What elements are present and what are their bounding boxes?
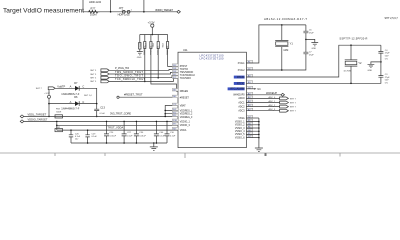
svg-text:C13: C13 <box>100 105 105 109</box>
wire second header drop <box>143 0 145 12</box>
terminal diamond VDDL_TARGET <box>20 115 24 118</box>
capacitor C24 <box>104 121 109 143</box>
svg-text:GND: GND <box>368 70 373 72</box>
svg-text:27pF: 27pF <box>309 55 314 57</box>
no-connect circle on reset <box>117 96 119 98</box>
capacitor C30 <box>134 121 139 143</box>
wire header pin2 drop <box>110 0 112 12</box>
svg-text:TMS/SWDIO: TMS/SWDIO <box>180 72 194 74</box>
wire VSSA to gnd bus <box>246 117 259 119</box>
ground (cap bank) <box>150 143 158 150</box>
svg-text:27pF: 27pF <box>385 77 390 79</box>
wire ADC1 <box>246 102 279 104</box>
wire RTCX1 to crystal <box>246 45 381 77</box>
svg-text:ADC_0: ADC_0 <box>269 96 277 99</box>
svg-text:SSPT7F-12.5PF20-R: SSPT7F-12.5PF20-R <box>339 37 367 41</box>
ground (VSSIO) <box>255 138 263 152</box>
wire VDDIO_3 rail <box>57 124 178 126</box>
svg-text:TRGT_VDDA: TRGT_VDDA <box>108 125 124 129</box>
wire cap bank ground rail <box>71 142 167 144</box>
svg-text:SHT 2,5,6,7: SHT 2,5,6,7 <box>385 17 399 20</box>
svg-text:32.768k: 32.768k <box>344 71 352 73</box>
svg-text:TCK/SWDCLK: TCK/SWDCLK <box>180 75 196 77</box>
terminal diamond WAKEUP <box>281 93 285 96</box>
svg-text:VSSIO_5: VSSIO_5 <box>235 134 245 136</box>
svg-text:12M: 12M <box>283 48 288 52</box>
svg-text:LPC4337JET100: LPC4337JET100 <box>200 57 225 61</box>
svg-text:XTAL2: XTAL2 <box>238 69 246 72</box>
svg-text:C: C <box>82 100 84 104</box>
svg-text:GND: GND <box>137 57 142 59</box>
wire from header pin1 down and right (top shunt circuit) <box>83 0 177 12</box>
power +3.3V (diode clamp) <box>48 90 50 96</box>
node junction at JP7 output <box>143 11 145 13</box>
capacitor C28 <box>85 130 89 143</box>
wire TDO <box>109 75 178 77</box>
wire VBAT/VDDREG bus <box>165 106 178 117</box>
wire R73 to TCK wire <box>144 35 146 82</box>
svg-text:VSSA: VSSA <box>238 117 245 120</box>
wire 3.3V stem <box>151 27 153 34</box>
svg-text:#RESET: #RESET <box>180 98 190 100</box>
svg-text:100m: 100m <box>90 13 97 17</box>
svg-text:VDDIO_TARGET: VDDIO_TARGET <box>28 118 48 122</box>
svg-text:VDDREG_3: VDDREG_3 <box>180 117 193 119</box>
svg-text:TDO_SWO_TRGT: TDO_SWO_TRGT <box>115 74 143 78</box>
wire TCK <box>109 78 178 81</box>
svg-text:VSSIO_4: VSSIO_4 <box>235 131 245 133</box>
svg-text:5%: 5% <box>385 82 388 84</box>
terminal diamond VDDIO_TARGET (lower) <box>20 120 24 123</box>
svg-text:0.1uF: 0.1uF <box>170 135 176 137</box>
svg-text:ADC_2: ADC_2 <box>269 104 277 107</box>
svg-text:SHT 5: SHT 5 <box>90 81 97 83</box>
terminal diamond VDDIO_TARGET <box>177 10 181 13</box>
wire ADC0 <box>246 97 279 99</box>
svg-text:WAKEUP0: WAKEUP0 <box>233 94 245 97</box>
node rtc gnd tap <box>380 61 382 63</box>
svg-text:+3.3V: +3.3V <box>44 93 50 95</box>
svg-text:Y2: Y2 <box>358 61 362 65</box>
svg-text:1N4448WS-7-F: 1N4448WS-7-F <box>61 106 79 110</box>
svg-text:A: A <box>70 85 72 89</box>
svg-text:0.1uF: 0.1uF <box>100 113 106 115</box>
svg-text:C: C <box>82 85 84 89</box>
svg-text:Y1: Y1 <box>290 41 294 45</box>
svg-text:ADC1: ADC1 <box>238 101 245 104</box>
ground GND (pull-down) <box>137 52 143 55</box>
port ADC2 <box>280 105 289 108</box>
svg-text:VddTP: VddTP <box>57 85 65 89</box>
svg-text:VSSIO_6: VSSIO_6 <box>235 137 245 139</box>
wire TMS <box>109 72 178 74</box>
svg-text:0.01uF: 0.01uF <box>110 135 117 137</box>
wire core rail 3V3_TRGT_CORE <box>24 115 178 117</box>
svg-text:VDDREG_2: VDDREG_2 <box>180 114 193 116</box>
wires VSSIO pins <box>246 122 259 138</box>
svg-text:HDR-1x02: HDR-1x02 <box>89 0 102 4</box>
capacitor C40 <box>154 121 159 143</box>
node rtc rail <box>350 44 352 46</box>
capacitor C26 <box>69 130 73 143</box>
wire RTCX2 <box>246 77 381 83</box>
wire pull-up rail <box>140 34 168 36</box>
svg-text:+3.3V: +3.3V <box>148 20 155 24</box>
svg-text:VDDIO_1: VDDIO_1 <box>180 121 191 123</box>
wire drop to VDDA rail <box>56 121 58 130</box>
svg-text:3V3_TRGT_CORE: 3V3_TRGT_CORE <box>110 111 131 115</box>
svg-text:5%: 5% <box>385 58 388 60</box>
svg-text:ABLS2-12.000MHZ-D4Y-T: ABLS2-12.000MHZ-D4Y-T <box>264 17 307 21</box>
svg-text:SHT 7: SHT 7 <box>290 107 297 109</box>
svg-text:VSSIO_3: VSSIO_3 <box>235 128 245 130</box>
svg-text:600R: 600R <box>56 111 61 113</box>
svg-text:ADC_1: ADC_1 <box>269 100 277 103</box>
svg-text:A: A <box>70 100 72 104</box>
wire D6 cathode <box>79 103 97 105</box>
svg-text:SHT 7: SHT 7 <box>290 98 297 100</box>
wire XTAL1 to crystal <box>246 25 306 63</box>
wire RTC_ALARM to NC <box>246 88 254 90</box>
capacitor C27 <box>122 121 127 143</box>
crystal Y1 <box>275 25 288 70</box>
svg-text:#TRST: #TRST <box>180 66 188 68</box>
svg-text:27pF: 27pF <box>309 33 314 35</box>
capacitor C7 <box>303 39 308 53</box>
svg-text:ADC_3: ADC_3 <box>269 108 277 111</box>
wire D7 cathode <box>79 88 97 103</box>
svg-text:VDDL_TARGET: VDDL_TARGET <box>28 113 47 117</box>
capacitor C4 <box>378 45 383 62</box>
wire R58 to #TRST <box>168 35 178 67</box>
svg-text:TDO/SWO: TDO/SWO <box>180 78 191 80</box>
svg-text:P_JTAG_TDI: P_JTAG_TDI <box>115 66 129 70</box>
wire TDI <box>109 68 178 71</box>
right pin numbers <box>247 61 253 64</box>
svg-text:SHT 7: SHT 7 <box>290 111 297 113</box>
wire VDDA rail TRGT_VDDA <box>57 129 178 131</box>
left pin numbers <box>172 64 178 67</box>
svg-text:DBGEN: DBGEN <box>180 91 189 93</box>
wire #RESET <box>119 96 178 98</box>
wire to D7 anode <box>55 87 75 89</box>
svg-text:WAKEUP: WAKEUP <box>266 91 277 95</box>
node junction at R77/header pin2 <box>110 11 112 13</box>
svg-text:SHT 7: SHT 7 <box>290 103 297 105</box>
svg-text:#RESET_TRGT: #RESET_TRGT <box>124 92 143 96</box>
wire ADC3 <box>246 110 279 112</box>
svg-text:SHT 5: SHT 5 <box>90 78 97 80</box>
wire R08 to DBGEN dogleg <box>151 35 178 92</box>
sheet border <box>0 152 400 154</box>
svg-text:ADC2: ADC2 <box>238 105 245 108</box>
wire WAKEUP0 <box>246 94 281 96</box>
svg-text:0.1uF: 0.1uF <box>127 135 133 137</box>
svg-text:D7: D7 <box>74 81 78 85</box>
node rail junction <box>152 34 154 36</box>
svg-text:RTCX1: RTCX1 <box>237 77 245 79</box>
capacitor C6 <box>303 25 308 40</box>
svg-text:VSSIO_1: VSSIO_1 <box>235 121 245 123</box>
svg-text:TDI/TDI: TDI/TDI <box>180 69 189 71</box>
svg-text:VDDIO_3: VDDIO_3 <box>180 125 191 127</box>
svg-text:0.01uF: 0.01uF <box>139 135 146 137</box>
wire VDDIO rail <box>24 120 178 122</box>
port ADC1 <box>280 101 289 104</box>
svg-text:ADC0: ADC0 <box>238 97 245 100</box>
svg-text:VDDREG_1: VDDREG_1 <box>180 110 193 112</box>
node gnd tap <box>305 39 307 41</box>
svg-text:SHT 5: SHT 5 <box>90 70 97 72</box>
svg-text:VSSIO_2: VSSIO_2 <box>235 125 245 127</box>
svg-text:U11: U11 <box>183 48 188 52</box>
svg-text:27pF: 27pF <box>385 53 390 55</box>
node top rail <box>281 24 283 26</box>
svg-text:TCK_SWDCLK_TRGT: TCK_SWDCLK_TRGT <box>115 77 145 81</box>
port ADC3 <box>280 109 289 112</box>
port ADC0 <box>280 97 289 100</box>
svg-text:TMS_SWDIO_TRGT: TMS_SWDIO_TRGT <box>115 70 143 74</box>
svg-text:0.1uF: 0.1uF <box>92 136 98 138</box>
ground (RTC caps) <box>368 62 381 68</box>
svg-text:VDDIO_TARGET: VDDIO_TARGET <box>155 8 173 12</box>
wire VSSIO gnd bus <box>258 118 260 138</box>
svg-text:VDDA: VDDA <box>180 129 187 132</box>
svg-text:RTC_ALARM: RTC_ALARM <box>231 88 245 91</box>
wire XTAL2 <box>246 54 306 70</box>
svg-text:RTCX2: RTCX2 <box>237 83 245 85</box>
svg-text:12 Kohms: 12 Kohms <box>156 46 158 55</box>
svg-text:GND: GND <box>312 48 317 50</box>
svg-text:VBAT: VBAT <box>180 104 186 107</box>
capacitor C10 <box>165 121 170 143</box>
svg-text:Target VddIO measurement: Target VddIO measurement <box>3 8 84 15</box>
svg-text:R77: R77 <box>91 7 96 11</box>
wire ADC2 <box>246 106 279 108</box>
resistor R70 (to GND) <box>139 35 141 43</box>
svg-text:12 Kohms: 12 Kohms <box>165 46 167 55</box>
svg-text:SHT 1,4: SHT 1,4 <box>84 95 92 97</box>
svg-text:50V: 50V <box>385 56 389 58</box>
capacitor C13 <box>94 104 99 117</box>
ground (12M caps) <box>306 39 318 46</box>
svg-text:XTAL1: XTAL1 <box>238 62 246 65</box>
crystal Y2 <box>345 45 358 83</box>
capacitor C3 <box>378 62 383 77</box>
svg-text:ADC3: ADC3 <box>238 110 245 113</box>
svg-text:HDR-1x02: HDR-1x02 <box>118 13 131 17</box>
svg-text:D6: D6 <box>74 95 78 99</box>
wire R57 to TDO wire <box>157 35 159 78</box>
svg-text:NC: NC <box>257 88 261 91</box>
svg-text:SHT 5: SHT 5 <box>90 74 97 76</box>
svg-text:50V: 50V <box>385 80 389 82</box>
svg-text:SHT 7: SHT 7 <box>36 88 43 90</box>
